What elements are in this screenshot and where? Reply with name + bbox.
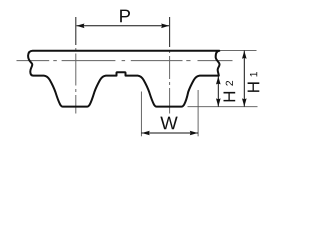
W label (160, 117, 177, 130)
tooth 2 center line (vertical dash-dot) (169, 50, 171, 114)
H1 label (248, 82, 260, 92)
H1 subscript 1 (250, 72, 257, 77)
tooth 1 center line extension tick (75, 17, 77, 45)
belt profile outline (28, 51, 219, 107)
P left arrowhead (76, 24, 84, 29)
bottom extension line (tooth tip line) (188, 106, 258, 108)
W right arrowhead (190, 131, 198, 136)
H2 bottom arrowhead (216, 98, 221, 106)
H1 top extension line (belt top) (220, 49, 257, 51)
H1 top arrowhead (242, 51, 247, 59)
P dimension line (77, 25, 170, 27)
H2 subscript 2 (226, 81, 233, 86)
P right arrowhead (161, 24, 169, 29)
H2 label (224, 92, 236, 102)
H1 bottom arrowhead (242, 98, 247, 106)
tooth 1 center line (vertical dash-dot) (75, 48, 77, 114)
H2 top arrowhead (216, 76, 221, 84)
W right extension line (197, 90, 199, 136)
P label (120, 10, 130, 23)
tooth 2 center line extension tick (169, 17, 171, 47)
W left arrowhead (142, 131, 150, 136)
H2 dimension line (217, 76, 219, 106)
W dimension line (141, 132, 198, 134)
H1 dimension line (243, 51, 245, 107)
W left extension line (140, 92, 142, 137)
pitch line (horizontal dash-dot center line) (17, 60, 233, 62)
